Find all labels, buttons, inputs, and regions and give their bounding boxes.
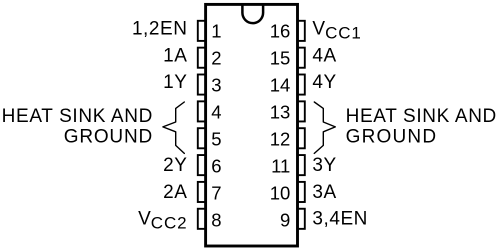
svg-text:12: 12 xyxy=(270,129,291,150)
svg-text:8: 8 xyxy=(211,210,221,231)
svg-text:3,4EN: 3,4EN xyxy=(312,208,368,229)
svg-text:4A: 4A xyxy=(312,45,336,66)
pin 13 box xyxy=(298,101,305,121)
svg-text:2: 2 xyxy=(211,47,221,68)
svg-text:HEAT SINK AND: HEAT SINK AND xyxy=(346,106,497,127)
svg-text:1: 1 xyxy=(211,20,221,41)
svg-text:VCC2: VCC2 xyxy=(138,208,187,232)
svg-text:HEAT SINK AND: HEAT SINK AND xyxy=(2,106,153,127)
svg-text:4Y: 4Y xyxy=(312,72,336,93)
pin 3 box xyxy=(198,75,206,95)
pin 11 box xyxy=(298,155,305,175)
svg-text:16: 16 xyxy=(270,20,291,41)
svg-text:1,2EN: 1,2EN xyxy=(132,18,188,39)
pin 10 box xyxy=(298,182,305,202)
svg-text:3Y: 3Y xyxy=(312,155,336,176)
brace right (pins 13-12 heat sink group) xyxy=(314,102,335,153)
svg-text:13: 13 xyxy=(270,101,291,122)
svg-text:2A: 2A xyxy=(163,182,187,203)
pin 12 box xyxy=(298,128,305,148)
pin 6 box xyxy=(198,155,206,175)
pin 8 box xyxy=(198,209,206,229)
svg-text:6: 6 xyxy=(211,156,221,177)
svg-text:9: 9 xyxy=(280,210,290,231)
svg-text:14: 14 xyxy=(270,74,291,95)
svg-text:7: 7 xyxy=(211,183,221,204)
svg-text:3A: 3A xyxy=(312,182,336,203)
svg-text:10: 10 xyxy=(270,183,291,204)
svg-text:1A: 1A xyxy=(163,45,187,66)
pin 16 box xyxy=(298,21,305,41)
svg-text:GROUND: GROUND xyxy=(346,127,438,148)
svg-text:GROUND: GROUND xyxy=(64,127,153,148)
svg-text:4: 4 xyxy=(211,101,221,122)
svg-text:11: 11 xyxy=(271,156,290,177)
pin 2 box xyxy=(198,48,206,68)
brace left (pins 4-5 heat sink group) xyxy=(163,102,184,153)
pin 14 box xyxy=(298,75,305,95)
svg-text:1Y: 1Y xyxy=(163,72,187,93)
pin 15 box xyxy=(298,48,305,68)
pin-1 index notch xyxy=(242,4,263,23)
pin 7 box xyxy=(198,182,206,202)
svg-text:VCC1: VCC1 xyxy=(312,18,361,42)
pin 5 box xyxy=(198,128,206,148)
pin 9 box xyxy=(298,209,305,229)
pin 1 box xyxy=(198,21,206,41)
IC body U1 (DIP-16 package outline) xyxy=(206,4,298,246)
svg-text:15: 15 xyxy=(270,47,291,68)
pin 4 box xyxy=(198,101,206,121)
svg-text:5: 5 xyxy=(211,129,221,150)
svg-text:3: 3 xyxy=(211,74,221,95)
svg-text:2Y: 2Y xyxy=(163,155,187,176)
